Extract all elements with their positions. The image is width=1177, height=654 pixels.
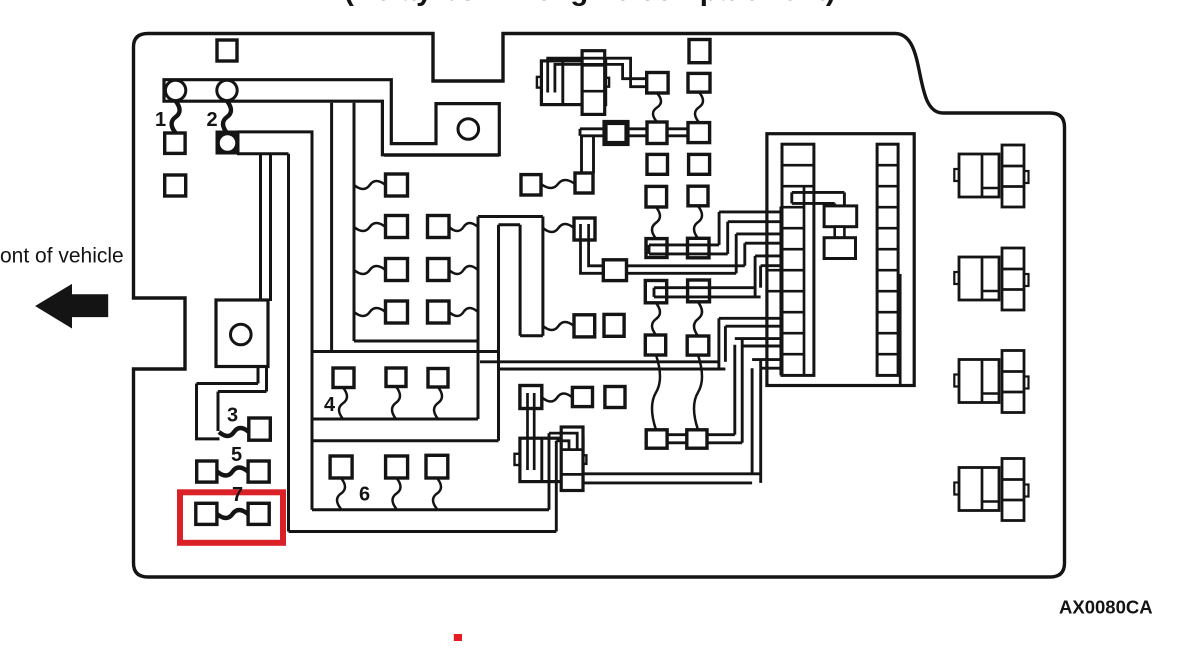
svg-text:7: 7: [232, 484, 243, 506]
svg-text:5: 5: [231, 444, 242, 466]
svg-text:1: 1: [155, 109, 166, 131]
svg-text:4: 4: [324, 394, 336, 416]
svg-text:(Relay box in engine compartme: (Relay box in engine compartment): [344, 0, 836, 7]
svg-text:2: 2: [207, 109, 218, 131]
svg-text:6: 6: [359, 484, 370, 506]
svg-text:ront of vehicle: ront of vehicle: [0, 245, 124, 268]
svg-text:AX0080CA: AX0080CA: [1059, 597, 1153, 618]
svg-text:3: 3: [227, 405, 238, 427]
